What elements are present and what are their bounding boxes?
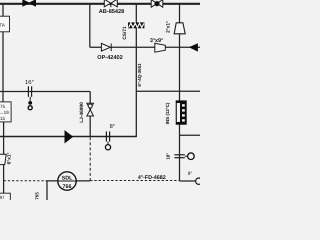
check valve OP-42402 <box>101 43 111 51</box>
wire: horizontal pipe y=91 left <box>0 91 90 93</box>
wire: top main header pipe <box>0 3 200 5</box>
vent circle right <box>185 153 194 160</box>
reducer R1 2x1 on right pipe <box>174 23 185 34</box>
svg-text:4°-FD-4682: 4°-FD-4682 <box>138 175 166 181</box>
component at bottom right edge <box>196 178 202 184</box>
wire: drop from header at x=136 <box>135 4 137 137</box>
svg-text:INS (12°C): INS (12°C) <box>165 102 170 124</box>
flange pair F2 on bottom pipe <box>106 131 109 141</box>
wire: left vertical pipe upper <box>2 4 4 16</box>
svg-text:3°x9°: 3°x9° <box>150 38 163 44</box>
connector box TA <box>0 16 10 32</box>
svg-text:SDL: SDL <box>62 175 73 181</box>
reducer R3 6x1 on left pipe <box>0 154 6 164</box>
svg-text:16°: 16° <box>25 79 34 86</box>
silencer S1 (hatched box on x=136 line) <box>128 22 144 28</box>
svg-text:15: 15 <box>0 116 6 121</box>
flow arrow into header (left pointing) <box>189 43 198 51</box>
wire: vertical pipe x=90 valve leg <box>89 92 91 137</box>
flange pair F3 on right pipe <box>174 155 184 158</box>
flow arrow on bottom main pipe <box>65 130 74 143</box>
valve V1 (filled gate valve on header) <box>22 0 36 7</box>
svg-text:AB-85428: AB-85428 <box>99 9 125 15</box>
svg-text:9°: 9° <box>188 171 193 177</box>
valve V2 (open gate valve AB-85428) <box>104 0 117 7</box>
flange pair F1 on y=91 pipe <box>28 86 31 97</box>
svg-text:OP-42402: OP-42402 <box>97 55 123 61</box>
wire: left vertical pipe middle <box>2 32 4 102</box>
vent circle below flange <box>105 142 110 150</box>
instrument bubble SDL 766 <box>58 172 77 190</box>
insulated spec break on right pipe <box>176 100 187 124</box>
wire: left vertical pipe lower <box>3 122 5 154</box>
svg-text:6°x1°: 6°x1° <box>7 153 13 165</box>
svg-text:766: 766 <box>63 184 72 190</box>
drain with cap below flange <box>28 97 32 110</box>
wire: stub to 9in component <box>180 180 196 182</box>
svg-text:8°: 8° <box>110 124 115 130</box>
wire: vertical drop at x=47 bottom <box>46 181 48 200</box>
svg-text:LJ-46990: LJ-46990 <box>79 102 85 123</box>
wire: solid line through SDL bubble <box>46 180 90 182</box>
svg-text:TA: TA <box>0 22 5 27</box>
wire: dashed instrument line middle segment <box>90 180 179 182</box>
wire: dashed instrument line left segment <box>4 180 46 182</box>
wire: bottom main pipe y=136 <box>0 136 137 138</box>
svg-text:97: 97 <box>0 195 5 200</box>
svg-text:765: 765 <box>35 192 40 200</box>
wire: instrument dashed vertical x=90 <box>89 137 91 180</box>
svg-text:6°-4Q-3651: 6°-4Q-3651 <box>137 63 142 87</box>
wire: horizontal pipe y=91 right <box>136 90 200 92</box>
svg-text:CS/71: CS/71 <box>122 26 128 40</box>
svg-text:75: 75 <box>0 104 6 109</box>
distribution box tags <box>0 102 11 122</box>
wire: right vertical pipe x=179.5 <box>179 4 181 181</box>
valve V3 (ball valve on header) <box>151 0 163 7</box>
wire: check valve branch horizontal <box>90 46 200 48</box>
reducer R2 3x9 <box>155 43 166 52</box>
wire: right branch y=135 <box>180 134 201 136</box>
connector box bottom left <box>0 193 10 203</box>
svg-text:2°x1°: 2°x1° <box>166 21 172 33</box>
svg-text:→19: →19 <box>0 110 9 115</box>
valve V4 vertical globe valve <box>87 103 94 116</box>
svg-text:18°: 18° <box>165 153 170 160</box>
wire: left vertical pipe bottom <box>3 164 5 193</box>
wire: drop from header at x=90 <box>89 4 91 48</box>
